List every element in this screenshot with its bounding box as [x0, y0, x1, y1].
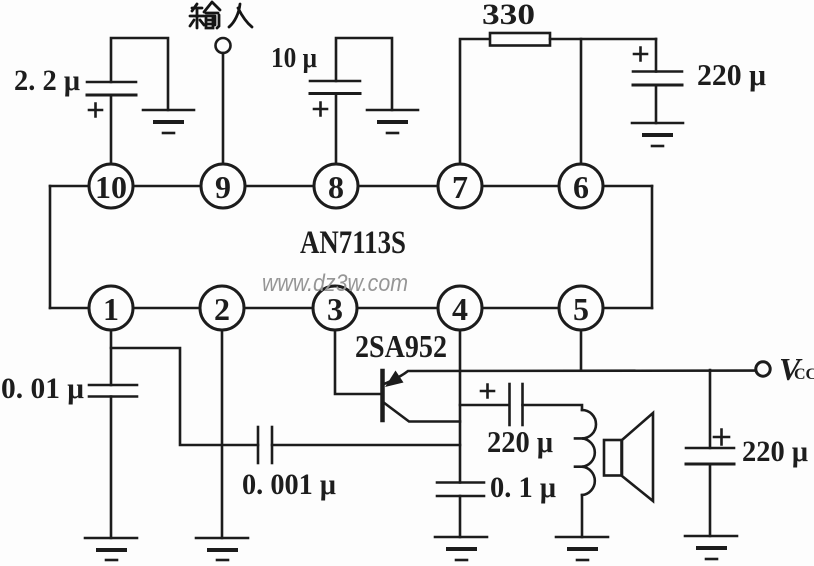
pin 7	[438, 164, 482, 208]
wire C3 bottom lead	[655, 85, 658, 123]
wire C6 to coil L1	[523, 405, 583, 410]
ground for pin 2	[196, 538, 248, 560]
wire C1 bottom lead to pin 10	[110, 95, 113, 168]
wire pin 2 to ground	[221, 326, 224, 538]
IC U1 body left side	[49, 186, 52, 308]
pin 10	[89, 164, 133, 208]
capacitor C7 0.1u plates	[437, 481, 484, 484]
plus sign of C3	[634, 48, 647, 61]
ground for C1	[143, 110, 194, 133]
pin 4	[438, 286, 482, 330]
svg-text:0. 01 μ: 0. 01 μ	[1, 372, 84, 405]
svg-text:10 μ: 10 μ	[271, 42, 317, 74]
svg-text:4: 4	[452, 291, 468, 327]
pin 6	[559, 164, 603, 208]
wire C2 bottom lead to pin 8	[335, 94, 338, 169]
speaker SP1 horn	[622, 413, 653, 501]
pin 5	[559, 286, 603, 330]
svg-text:5: 5	[573, 291, 589, 327]
svg-text:AN7113S: AN7113S	[300, 225, 406, 261]
plus sign of C6	[481, 385, 494, 398]
svg-text:3: 3	[327, 291, 343, 327]
svg-text:2. 2 μ: 2. 2 μ	[14, 64, 80, 97]
pin 1	[89, 286, 133, 330]
capacitor C1 2.2u plates	[87, 81, 136, 84]
transistor Q1 emitter lead with arrow	[384, 371, 754, 384]
svg-text:2SA952: 2SA952	[355, 328, 447, 364]
capacitor C4 0.01u plates	[89, 384, 137, 387]
ground for C8	[685, 536, 737, 559]
svg-text:7: 7	[452, 169, 468, 205]
ground for C4	[85, 538, 137, 560]
plus sign of C2	[314, 103, 327, 116]
wire pin 1 down	[110, 326, 113, 385]
wire pin 7 up to resistor R1	[460, 39, 490, 168]
svg-text:8: 8	[328, 169, 344, 205]
wire pin 4 to C6	[460, 404, 508, 407]
IC U1 body bottom rail	[50, 307, 652, 310]
plus sign of C1	[89, 104, 102, 117]
pin 9	[201, 164, 245, 208]
svg-text:2: 2	[214, 291, 230, 327]
svg-text:9: 9	[215, 169, 231, 205]
wire pin 3 to Q1 base	[335, 326, 380, 394]
label 输入 input	[190, 2, 252, 28]
wire input to pin 9	[222, 53, 225, 168]
wire C4 bottom lead	[110, 397, 113, 539]
svg-text:330: 330	[482, 0, 535, 31]
wire Vcc rail to C8	[709, 370, 712, 448]
capacitor C3 220u plates	[633, 70, 682, 73]
transistor Q1 collector lead	[383, 402, 460, 422]
pin 2	[200, 286, 244, 330]
ground for C7	[435, 537, 487, 560]
wire C7 to ground	[459, 496, 462, 537]
svg-text:0. 1 μ: 0. 1 μ	[490, 471, 556, 504]
IC U1 body top rail	[50, 185, 652, 188]
IC U1 body right side	[651, 186, 654, 308]
ground for C2	[367, 110, 418, 133]
transistor Q1 2SA952 base bar	[380, 371, 385, 420]
svg-text:6: 6	[573, 169, 589, 205]
wire R1 to C3 node	[550, 38, 656, 41]
svg-text:CC: CC	[794, 366, 814, 383]
inductor L1 voice coil	[582, 410, 596, 495]
wire C5 to pin 4 line	[272, 444, 460, 447]
wire pin 5 down to Vcc rail	[580, 326, 583, 370]
pin 8	[314, 164, 358, 208]
capacitor C5 0.001u plates	[257, 427, 260, 463]
svg-text:0. 001 μ: 0. 001 μ	[242, 468, 336, 501]
wire C3 top lead	[655, 39, 658, 72]
svg-text:220 μ: 220 μ	[487, 424, 553, 459]
svg-text:220 μ: 220 μ	[742, 435, 808, 468]
wire L1 to ground	[581, 495, 584, 537]
svg-text:1: 1	[103, 291, 119, 327]
wire pin1 node to C5 branch	[111, 348, 258, 445]
svg-text:10: 10	[95, 169, 127, 205]
svg-text:220 μ: 220 μ	[697, 57, 766, 92]
pin 3	[313, 286, 357, 330]
wire C8 to ground	[709, 464, 712, 536]
capacitor C2 10u plates	[310, 80, 360, 83]
capacitor C8 220u plates	[686, 447, 734, 450]
input terminal circle	[216, 38, 231, 53]
ground for L1	[556, 537, 608, 560]
capacitor C6 220u plates	[508, 384, 511, 425]
speaker SP1 driver box	[604, 440, 622, 476]
wire node to pin 6	[580, 39, 583, 168]
plus sign of C8	[714, 430, 729, 445]
ground for C3	[632, 123, 683, 146]
wire C1 top lead	[111, 38, 168, 110]
wire C2 top lead	[336, 38, 392, 110]
resistor R1 330	[490, 33, 550, 46]
Vcc terminal circle	[756, 362, 770, 376]
wire pin 4 down	[459, 326, 462, 483]
